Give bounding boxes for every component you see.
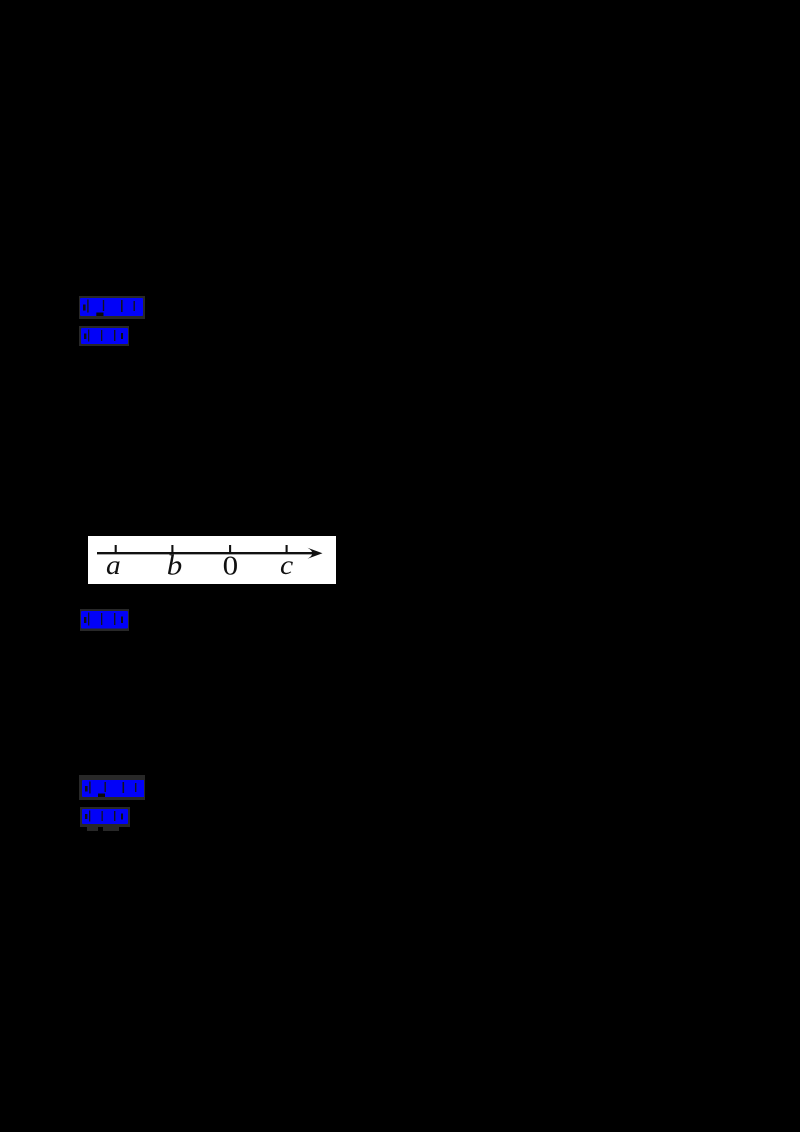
svg-text:0: 0	[223, 551, 239, 581]
svg-text:a: a	[106, 551, 121, 581]
svg-text:c: c	[280, 551, 294, 580]
svg-text:b: b	[167, 549, 183, 581]
